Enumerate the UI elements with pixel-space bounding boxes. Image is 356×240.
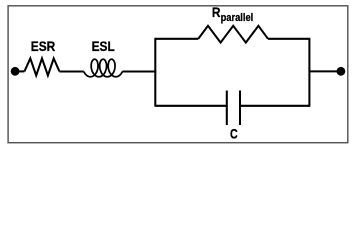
wire: left vertical of parallel loop — [154, 39, 156, 106]
svg-text:parallel: parallel — [221, 12, 254, 24]
resistor ESR — [24, 58, 59, 75]
node left terminal — [11, 67, 20, 76]
svg-text:R: R — [212, 4, 221, 20]
wire: right vertical of parallel loop — [308, 39, 310, 106]
wire to right terminal — [309, 70, 341, 72]
capacitor C — [227, 91, 240, 126]
resistor Rparallel — [198, 26, 268, 43]
svg-text:C: C — [230, 126, 238, 142]
svg-text:ESR: ESR — [31, 38, 56, 54]
wire ESL to parallel block — [122, 70, 156, 72]
border frame — [8, 6, 348, 143]
node right terminal — [337, 67, 346, 76]
wire left dot to ESR — [15, 70, 24, 72]
svg-text:ESL: ESL — [92, 38, 115, 54]
wire: top-right segment — [268, 38, 310, 40]
wire: top-left segment — [154, 38, 198, 40]
wire ESR to ESL — [59, 70, 83, 72]
wire: bottom-left segment — [154, 105, 226, 107]
wire: bottom-right segment — [240, 105, 310, 107]
inductor ESL — [84, 59, 123, 77]
